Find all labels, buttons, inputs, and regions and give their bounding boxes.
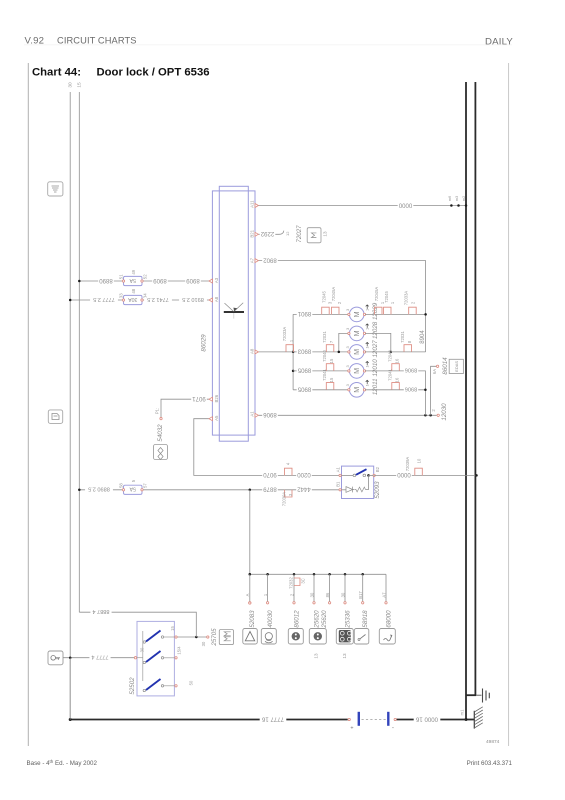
svg-text:M: M	[352, 311, 361, 317]
svg-text:A3: A3	[214, 277, 219, 283]
svg-text:m6: m6	[447, 195, 452, 201]
svg-text:72040: 72040	[388, 350, 393, 362]
svg-text:A: A	[245, 593, 250, 596]
svg-text:Print 603.43.371: Print 603.43.371	[467, 760, 513, 767]
svg-text:CIRCUIT CHARTS: CIRCUIT CHARTS	[57, 36, 137, 46]
svg-text:M: M	[352, 368, 361, 374]
svg-text:49: 49	[131, 269, 136, 274]
svg-text:13: 13	[323, 231, 328, 237]
svg-text:9071: 9071	[192, 395, 206, 402]
svg-text:8909: 8909	[186, 277, 200, 284]
svg-text:A11: A11	[249, 200, 254, 208]
svg-text:8903: 8903	[297, 348, 311, 355]
svg-text:B2: B2	[375, 466, 380, 472]
svg-text:72045A: 72045A	[331, 287, 336, 302]
svg-text:15/4: 15/4	[176, 646, 181, 655]
svg-text:2292: 2292	[260, 230, 274, 237]
svg-text:7777 16: 7777 16	[261, 715, 284, 722]
svg-text:72045: 72045	[321, 291, 326, 303]
svg-text:8905: 8905	[297, 386, 311, 393]
svg-text:8902: 8902	[263, 256, 277, 263]
svg-text:0000 16: 0000 16	[415, 715, 438, 722]
svg-text:m2: m2	[461, 195, 466, 201]
svg-text:8909: 8909	[153, 277, 167, 284]
svg-text:3C: 3C	[301, 578, 306, 583]
svg-text:0000: 0000	[397, 471, 411, 478]
svg-text:A8: A8	[214, 296, 219, 302]
svg-text:A1: A1	[249, 411, 254, 417]
svg-text:9070: 9070	[263, 471, 277, 478]
svg-text:15: 15	[170, 626, 175, 631]
svg-text:15: 15	[329, 377, 334, 382]
svg-text:8906: 8906	[405, 367, 417, 373]
svg-text:57: 57	[143, 483, 148, 488]
svg-text:12029: 12029	[372, 302, 379, 320]
svg-text:72039A: 72039A	[405, 457, 410, 472]
svg-text:8904: 8904	[419, 330, 426, 344]
svg-text:15: 15	[329, 358, 334, 363]
svg-text:M: M	[352, 387, 361, 393]
svg-text:B1: B1	[335, 481, 340, 487]
svg-text:7741 2.5: 7741 2.5	[147, 296, 169, 302]
svg-text:49874: 49874	[486, 739, 500, 745]
svg-text:51: 51	[119, 274, 124, 279]
svg-text:A1: A1	[335, 467, 340, 473]
svg-text:A7: A7	[381, 592, 386, 598]
svg-text:52502: 52502	[129, 677, 136, 695]
svg-text:8905: 8905	[297, 367, 311, 374]
svg-text:86014: 86014	[442, 357, 449, 375]
svg-text:72031: 72031	[322, 331, 327, 343]
svg-text:6A: 6A	[432, 369, 437, 374]
svg-text:A7: A7	[249, 257, 254, 263]
svg-text:48: 48	[131, 288, 136, 293]
svg-text:7777 2.5: 7777 2.5	[93, 296, 115, 302]
svg-text:P1:: P1:	[154, 408, 159, 414]
svg-text:10: 10	[417, 458, 422, 463]
svg-text:30: 30	[340, 592, 345, 597]
svg-text:DAILY: DAILY	[485, 37, 513, 48]
svg-text:30: 30	[67, 82, 73, 88]
svg-text:50: 50	[188, 680, 193, 685]
svg-text:M: M	[352, 330, 361, 336]
svg-text:8879: 8879	[263, 486, 277, 493]
svg-text:15: 15	[76, 82, 82, 88]
svg-text:72033A: 72033A	[403, 291, 408, 306]
svg-text:m3: m3	[454, 195, 459, 201]
svg-text:8887 4: 8887 4	[92, 608, 109, 614]
svg-text:72045: 72045	[384, 291, 389, 303]
svg-text:B21: B21	[249, 229, 254, 237]
svg-text:5A: 5A	[129, 277, 136, 283]
svg-text:30: 30	[309, 592, 314, 597]
svg-text:52: 52	[143, 274, 148, 279]
svg-text:58: 58	[119, 483, 124, 488]
svg-text:40030: 40030	[267, 610, 274, 628]
svg-text:86: 86	[325, 592, 330, 597]
svg-text:30: 30	[140, 647, 145, 652]
svg-text:0000: 0000	[398, 201, 412, 208]
svg-text:72045A: 72045A	[374, 287, 379, 302]
svg-text:54032: 54032	[157, 424, 164, 442]
svg-text:25620: 25620	[321, 610, 328, 629]
svg-text:33: 33	[119, 293, 124, 298]
svg-text:13: 13	[313, 653, 318, 659]
svg-text:0200: 0200	[297, 471, 311, 478]
svg-text:-: -	[392, 725, 394, 732]
svg-text:86012: 86012	[293, 610, 300, 628]
svg-text:30A: 30A	[128, 296, 138, 302]
svg-text:52093: 52093	[374, 481, 381, 499]
svg-text:M: M	[352, 349, 361, 355]
svg-text:25336: 25336	[344, 610, 351, 629]
svg-text:72032: 72032	[288, 577, 293, 589]
svg-text:B17: B17	[358, 591, 363, 599]
svg-text:25705: 25705	[211, 628, 218, 647]
svg-text:7777 4: 7777 4	[91, 654, 108, 660]
svg-text:12011: 12011	[372, 378, 379, 395]
svg-text:m1: m1	[459, 709, 464, 715]
svg-text:Door lock / OPT 6536: Door lock / OPT 6536	[97, 67, 210, 79]
svg-text:16: 16	[395, 358, 400, 363]
svg-text:16: 16	[395, 377, 400, 382]
svg-text:Chart 44:: Chart 44:	[32, 67, 81, 79]
svg-text:52083: 52083	[249, 610, 256, 628]
svg-text:12027: 12027	[372, 340, 379, 358]
svg-text:86029: 86029	[200, 334, 207, 352]
svg-text:72040: 72040	[322, 350, 327, 362]
svg-text:72039A: 72039A	[282, 492, 287, 507]
svg-text:4442: 4442	[297, 486, 311, 493]
svg-text:8910 2.5: 8910 2.5	[182, 296, 204, 302]
svg-text:34: 34	[143, 293, 148, 298]
svg-text:12028: 12028	[372, 321, 379, 339]
svg-text:A5: A5	[214, 415, 219, 421]
svg-text:Base - 4th Ed. - May 2002: Base - 4th Ed. - May 2002	[27, 759, 98, 767]
svg-text:72031: 72031	[400, 331, 405, 343]
svg-text:72033A: 72033A	[282, 327, 287, 342]
svg-text:58918: 58918	[362, 610, 369, 628]
svg-text:25620: 25620	[313, 610, 320, 629]
svg-text:+: +	[350, 726, 353, 732]
svg-text:A8: A8	[249, 348, 254, 354]
svg-text:8890: 8890	[99, 277, 113, 284]
svg-text:EDAS: EDAS	[454, 361, 459, 372]
svg-text:72041: 72041	[388, 369, 393, 381]
svg-text:8890 2.5: 8890 2.5	[88, 486, 110, 492]
svg-text:B26: B26	[214, 394, 219, 402]
svg-text:68000: 68000	[385, 610, 392, 628]
svg-text:12010: 12010	[372, 359, 379, 377]
svg-text:8906: 8906	[263, 411, 277, 418]
svg-text:8901: 8901	[297, 310, 311, 317]
svg-text:72027: 72027	[296, 225, 303, 243]
svg-text:72041: 72041	[322, 369, 327, 381]
svg-text:30: 30	[201, 641, 206, 646]
svg-text:8906: 8906	[405, 386, 417, 392]
svg-text:12: 12	[285, 231, 290, 236]
svg-text:12030: 12030	[441, 403, 448, 421]
svg-text:5A: 5A	[129, 486, 136, 492]
svg-text:13: 13	[342, 653, 347, 659]
